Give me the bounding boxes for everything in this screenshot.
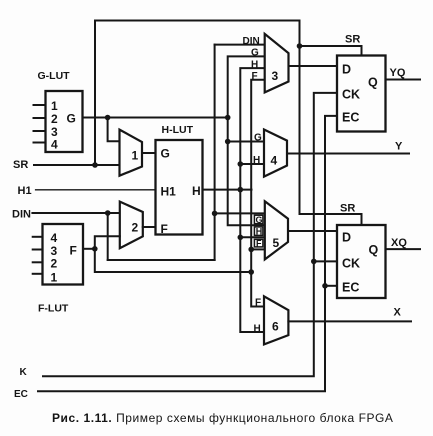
svg-text:2: 2 — [51, 257, 58, 271]
node G' joins G vertical — [225, 115, 231, 121]
node G' branch to mux1 — [105, 115, 111, 121]
node SR1 junction — [297, 43, 303, 49]
mux5 boxed label H — [254, 227, 263, 236]
svg-text:1: 1 — [51, 99, 58, 113]
wire DIN route up — [214, 45, 216, 260]
wire DIN input — [32, 212, 119, 214]
H-LUT box — [156, 140, 203, 235]
svg-text:H1: H1 — [18, 185, 32, 197]
svg-text:2: 2 — [132, 221, 139, 235]
svg-text:EC: EC — [14, 389, 28, 400]
wire K clock vertical and K line — [43, 93, 337, 376]
svg-text:G: G — [67, 112, 76, 126]
svg-text:SR: SR — [345, 34, 360, 46]
svg-text:YQ: YQ — [390, 67, 406, 79]
svg-text:F-LUT: F-LUT — [38, 303, 69, 315]
svg-text:H: H — [251, 59, 258, 70]
wire mux3 output to FF1 D — [289, 65, 338, 67]
G-LUT input stub 3 — [34, 130, 46, 132]
wire G vertical — [228, 56, 265, 225]
wire H' output — [203, 189, 252, 191]
svg-text:SR: SR — [340, 203, 355, 215]
node DIN branch to mux5 — [212, 211, 218, 217]
mux 6 — [264, 296, 288, 344]
svg-text:G: G — [254, 133, 262, 144]
wire F vertical — [251, 80, 265, 307]
node DIN branch — [105, 210, 111, 216]
svg-text:SR: SR — [13, 159, 28, 171]
node SR-riser junction — [92, 162, 98, 168]
svg-text:H: H — [254, 324, 261, 335]
svg-text:H: H — [192, 184, 201, 198]
svg-text:DIN: DIN — [12, 209, 31, 221]
svg-text:3: 3 — [272, 69, 279, 83]
node CK branch to FF2 — [311, 259, 317, 265]
svg-text:G-LUT: G-LUT — [38, 70, 71, 82]
svg-text:F: F — [70, 244, 77, 258]
wire F to mux5 — [251, 248, 265, 250]
svg-text:G: G — [251, 48, 259, 59]
mux5 boxed label G — [254, 215, 263, 224]
wire H1 input — [36, 189, 156, 191]
svg-text:F: F — [256, 238, 262, 248]
wire H to mux4 — [240, 163, 264, 165]
wire top rail — [95, 20, 300, 22]
mux 5 — [265, 201, 288, 259]
wire DIN route down — [107, 213, 109, 260]
wire H vertical — [240, 68, 264, 332]
svg-text:H: H — [256, 227, 263, 237]
svg-text:4: 4 — [271, 154, 278, 168]
node EC branch to FF2 — [322, 283, 328, 289]
svg-text:X: X — [394, 307, 402, 319]
G-LUT input stub 2 — [34, 117, 46, 119]
G-LUT input stub 4 — [34, 142, 46, 144]
wire G to mux4 — [228, 141, 264, 143]
F-LUT input stub 2 — [33, 261, 43, 263]
wire SR drop right (x=299.5 down to SR2) — [299, 21, 301, 215]
svg-text:H1: H1 — [161, 185, 177, 199]
svg-text:Q: Q — [368, 76, 378, 90]
wire DIN to mux3 — [215, 44, 265, 46]
wire YQ output — [386, 79, 421, 81]
F-LUT input stub 1 — [33, 273, 43, 275]
node H to mux4 — [238, 161, 244, 167]
svg-text:F: F — [252, 71, 258, 82]
svg-text:D: D — [342, 231, 351, 245]
node H to mux5 — [238, 235, 244, 241]
svg-text:5: 5 — [273, 236, 280, 250]
wire mux1 output to H-LUT G — [142, 152, 156, 154]
svg-text:F: F — [161, 222, 168, 236]
mux 4 — [264, 130, 287, 177]
svg-text:6: 6 — [272, 320, 279, 334]
svg-text:2: 2 — [51, 112, 58, 126]
svg-text:Y: Y — [395, 141, 403, 153]
G-LUT input stub 1 — [34, 104, 46, 106]
wire DIN route across — [108, 259, 215, 261]
wire DIN to mux5 — [215, 212, 265, 214]
flip-flop FF1 box — [337, 56, 386, 132]
wire CK to FF2 — [314, 260, 337, 262]
svg-text:1: 1 — [132, 149, 139, 163]
svg-text:H-LUT: H-LUT — [162, 124, 194, 136]
flip-flop FF2 box — [337, 225, 386, 298]
wire F' branch up to mux2 — [95, 236, 120, 249]
F-LUT input stub 4 — [33, 236, 43, 238]
wire F' route down and across — [95, 249, 251, 272]
wire SR riser left (x=95, SR line up to top rail) — [94, 21, 96, 166]
wire XQ output — [386, 248, 421, 250]
wire EC vertical and EC line — [38, 116, 337, 391]
svg-text:4: 4 — [51, 231, 58, 245]
svg-text:CK: CK — [342, 257, 360, 271]
F-LUT box — [43, 224, 84, 285]
mux 2 — [120, 202, 143, 249]
svg-text:F: F — [255, 298, 261, 309]
svg-text:D: D — [342, 63, 351, 77]
wire SR input — [34, 164, 120, 166]
wire SR1 to FF1 — [300, 46, 362, 56]
node H' joins H vertical — [238, 187, 244, 193]
svg-text:H: H — [253, 155, 260, 166]
wire SR2 to FF2 — [300, 214, 362, 226]
node F to mux5 — [248, 247, 254, 253]
wire G' output — [83, 117, 228, 119]
wire mux5 output to FF2 D — [288, 230, 337, 232]
svg-text:G: G — [161, 147, 170, 161]
G-LUT box — [46, 91, 83, 152]
svg-text:XQ: XQ — [391, 237, 407, 249]
mux 3 — [265, 34, 289, 93]
wire mux2 output to H-LUT F — [143, 226, 156, 228]
svg-text:Рис. 1.11. Пример схемы функци: Рис. 1.11. Пример схемы функционального … — [52, 411, 393, 425]
svg-text:G: G — [256, 215, 263, 225]
F-LUT input stub 3 — [33, 249, 43, 251]
svg-text:4: 4 — [51, 138, 58, 152]
wire Y output — [287, 153, 409, 155]
svg-text:CK: CK — [342, 88, 360, 102]
svg-text:DIN: DIN — [243, 36, 260, 47]
node F' joins F vertical — [248, 269, 254, 275]
svg-text:Q: Q — [369, 243, 379, 257]
wire X output — [288, 320, 411, 322]
svg-text:EC: EC — [342, 281, 359, 295]
svg-text:K: K — [20, 367, 28, 378]
wire F' output — [83, 248, 95, 250]
svg-text:EC: EC — [342, 111, 359, 125]
mux5 boxed label F — [254, 239, 263, 247]
svg-text:1: 1 — [51, 271, 58, 285]
wire H to mux5 — [240, 236, 264, 238]
wire G' branch down to mux1 — [108, 118, 120, 142]
node F' branch — [92, 246, 98, 252]
wire EC to FF2 — [325, 285, 337, 287]
node G to mux4 — [225, 139, 231, 145]
mux 1 — [120, 130, 143, 176]
